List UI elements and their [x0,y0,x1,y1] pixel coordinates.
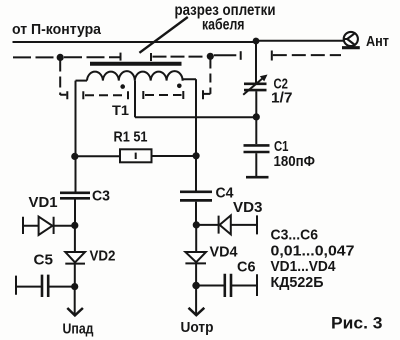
leader line to braid cut [139,17,187,53]
wire: braid dashed middle section [153,56,207,58]
svg-text:VD2: VD2 [90,248,116,265]
svg-text:Uотр: Uотр [181,319,214,336]
braid shield stub right (dashed down with tick) [209,60,211,94]
node: C5 junction dot [71,283,78,290]
svg-text:180пФ: 180пФ [274,154,316,170]
wire: R1 right lead [152,155,197,157]
output arrow Uпад [74,287,76,315]
node: VD3 junction dot [193,221,200,228]
wire: VD2 to C5 node [74,264,76,284]
wire: R1 left lead [76,155,121,157]
resistor R1 body [120,149,152,162]
svg-text:VD1: VD1 [29,194,58,211]
polarity dot right winding [177,84,182,89]
output arrow Uотр [195,286,197,315]
node: junction dot on center conductor at C2 [253,38,260,45]
capacitor C3 [60,193,90,199]
svg-text:Ант: Ант [366,33,389,50]
wire: braid dashed to left cut [64,56,120,58]
screen (dashed) under left winding [83,91,128,99]
braid shield stub left (dashed down with tick) [59,61,61,96]
diode VD4 [195,228,197,252]
svg-text:C1: C1 [274,139,289,155]
svg-text:VD4: VD4 [210,244,239,261]
node: C1/C2 junction dot [253,113,260,120]
svg-text:от П-контура: от П-контура [12,22,102,38]
svg-text:1/7: 1/7 [271,91,293,107]
wire: winding center tap down [134,81,136,118]
node: R1 left junction dot [71,153,78,160]
svg-text:C3: C3 [92,189,110,205]
wire: C4 to VD3 node [195,202,197,222]
svg-text:C4: C4 [216,186,234,202]
svg-text:C6: C6 [237,259,256,276]
wire: right winding end jog to right column [183,79,196,80]
diode VD1 [23,217,39,234]
wire: braid dashed right section to antenna [273,54,341,56]
node: R1 right junction dot [193,152,200,159]
capacitor C6 [196,285,224,287]
wire: C3 to VD1 node [74,200,76,223]
node: braid junction dot left [57,54,64,61]
wire: braid dashed to right cut [214,54,236,56]
capacitor C4 [180,192,212,201]
capacitor C5 [16,276,41,295]
svg-text:VD3: VD3 [233,199,263,216]
svg-text:C3...C6: C3...C6 [271,227,319,244]
svg-text:VD1...VD4: VD1...VD4 [271,258,337,275]
wire: C2 to node [255,91,257,113]
wire: left column down to C3 [75,81,77,192]
polarity dot left winding [120,84,125,89]
wire: node down to C1 [255,120,257,144]
svg-text:КД522Б: КД522Б [271,274,324,291]
svg-text:Рис. 3: Рис. 3 [331,314,383,333]
wire: from center conductor down to C2 [255,42,257,83]
wire: right column down to C4 [195,79,197,190]
diode VD3 [199,216,219,234]
braid cut tick left [120,53,122,61]
braid end bar under C1 [246,176,269,179]
wire: coax center conductor from П-контур to antenna [13,41,345,42]
wire: left winding end jog to left column [76,80,88,82]
svg-text:R1 51: R1 51 [114,130,148,146]
transformer T1 secondary winding (6 humps) [87,71,183,80]
braid cut tick (right cut, left side) [240,51,242,60]
svg-text:кабеля: кабеля [202,17,245,34]
braid cut tick right [150,53,152,61]
transformer T1 core bar (braid section) [90,62,182,66]
diode VD2 [74,228,76,252]
svg-text:T1: T1 [112,102,129,118]
wire: VD4 to C6 node [195,263,197,282]
screen (dashed) under right winding [143,91,183,99]
capacitor C2 (variable) [244,84,267,90]
wire: C1 down to braid bar [255,153,257,176]
svg-text:Uпад: Uпад [63,321,94,338]
svg-text:0,01...0,047: 0,01...0,047 [271,242,355,259]
node: C6 junction dot [192,282,200,290]
wire: center tap horizontal to C1/C2 node [135,116,256,118]
antenna connector XW1 [342,32,360,48]
svg-text:C5: C5 [34,252,54,269]
node: braid junction dot right [207,53,214,60]
braid cut tick (right cut, right side) [271,51,273,61]
node: VD1 junction dot [71,222,78,229]
wire: cable braid (dashed) left section [13,56,57,58]
capacitor C1 [244,145,270,152]
